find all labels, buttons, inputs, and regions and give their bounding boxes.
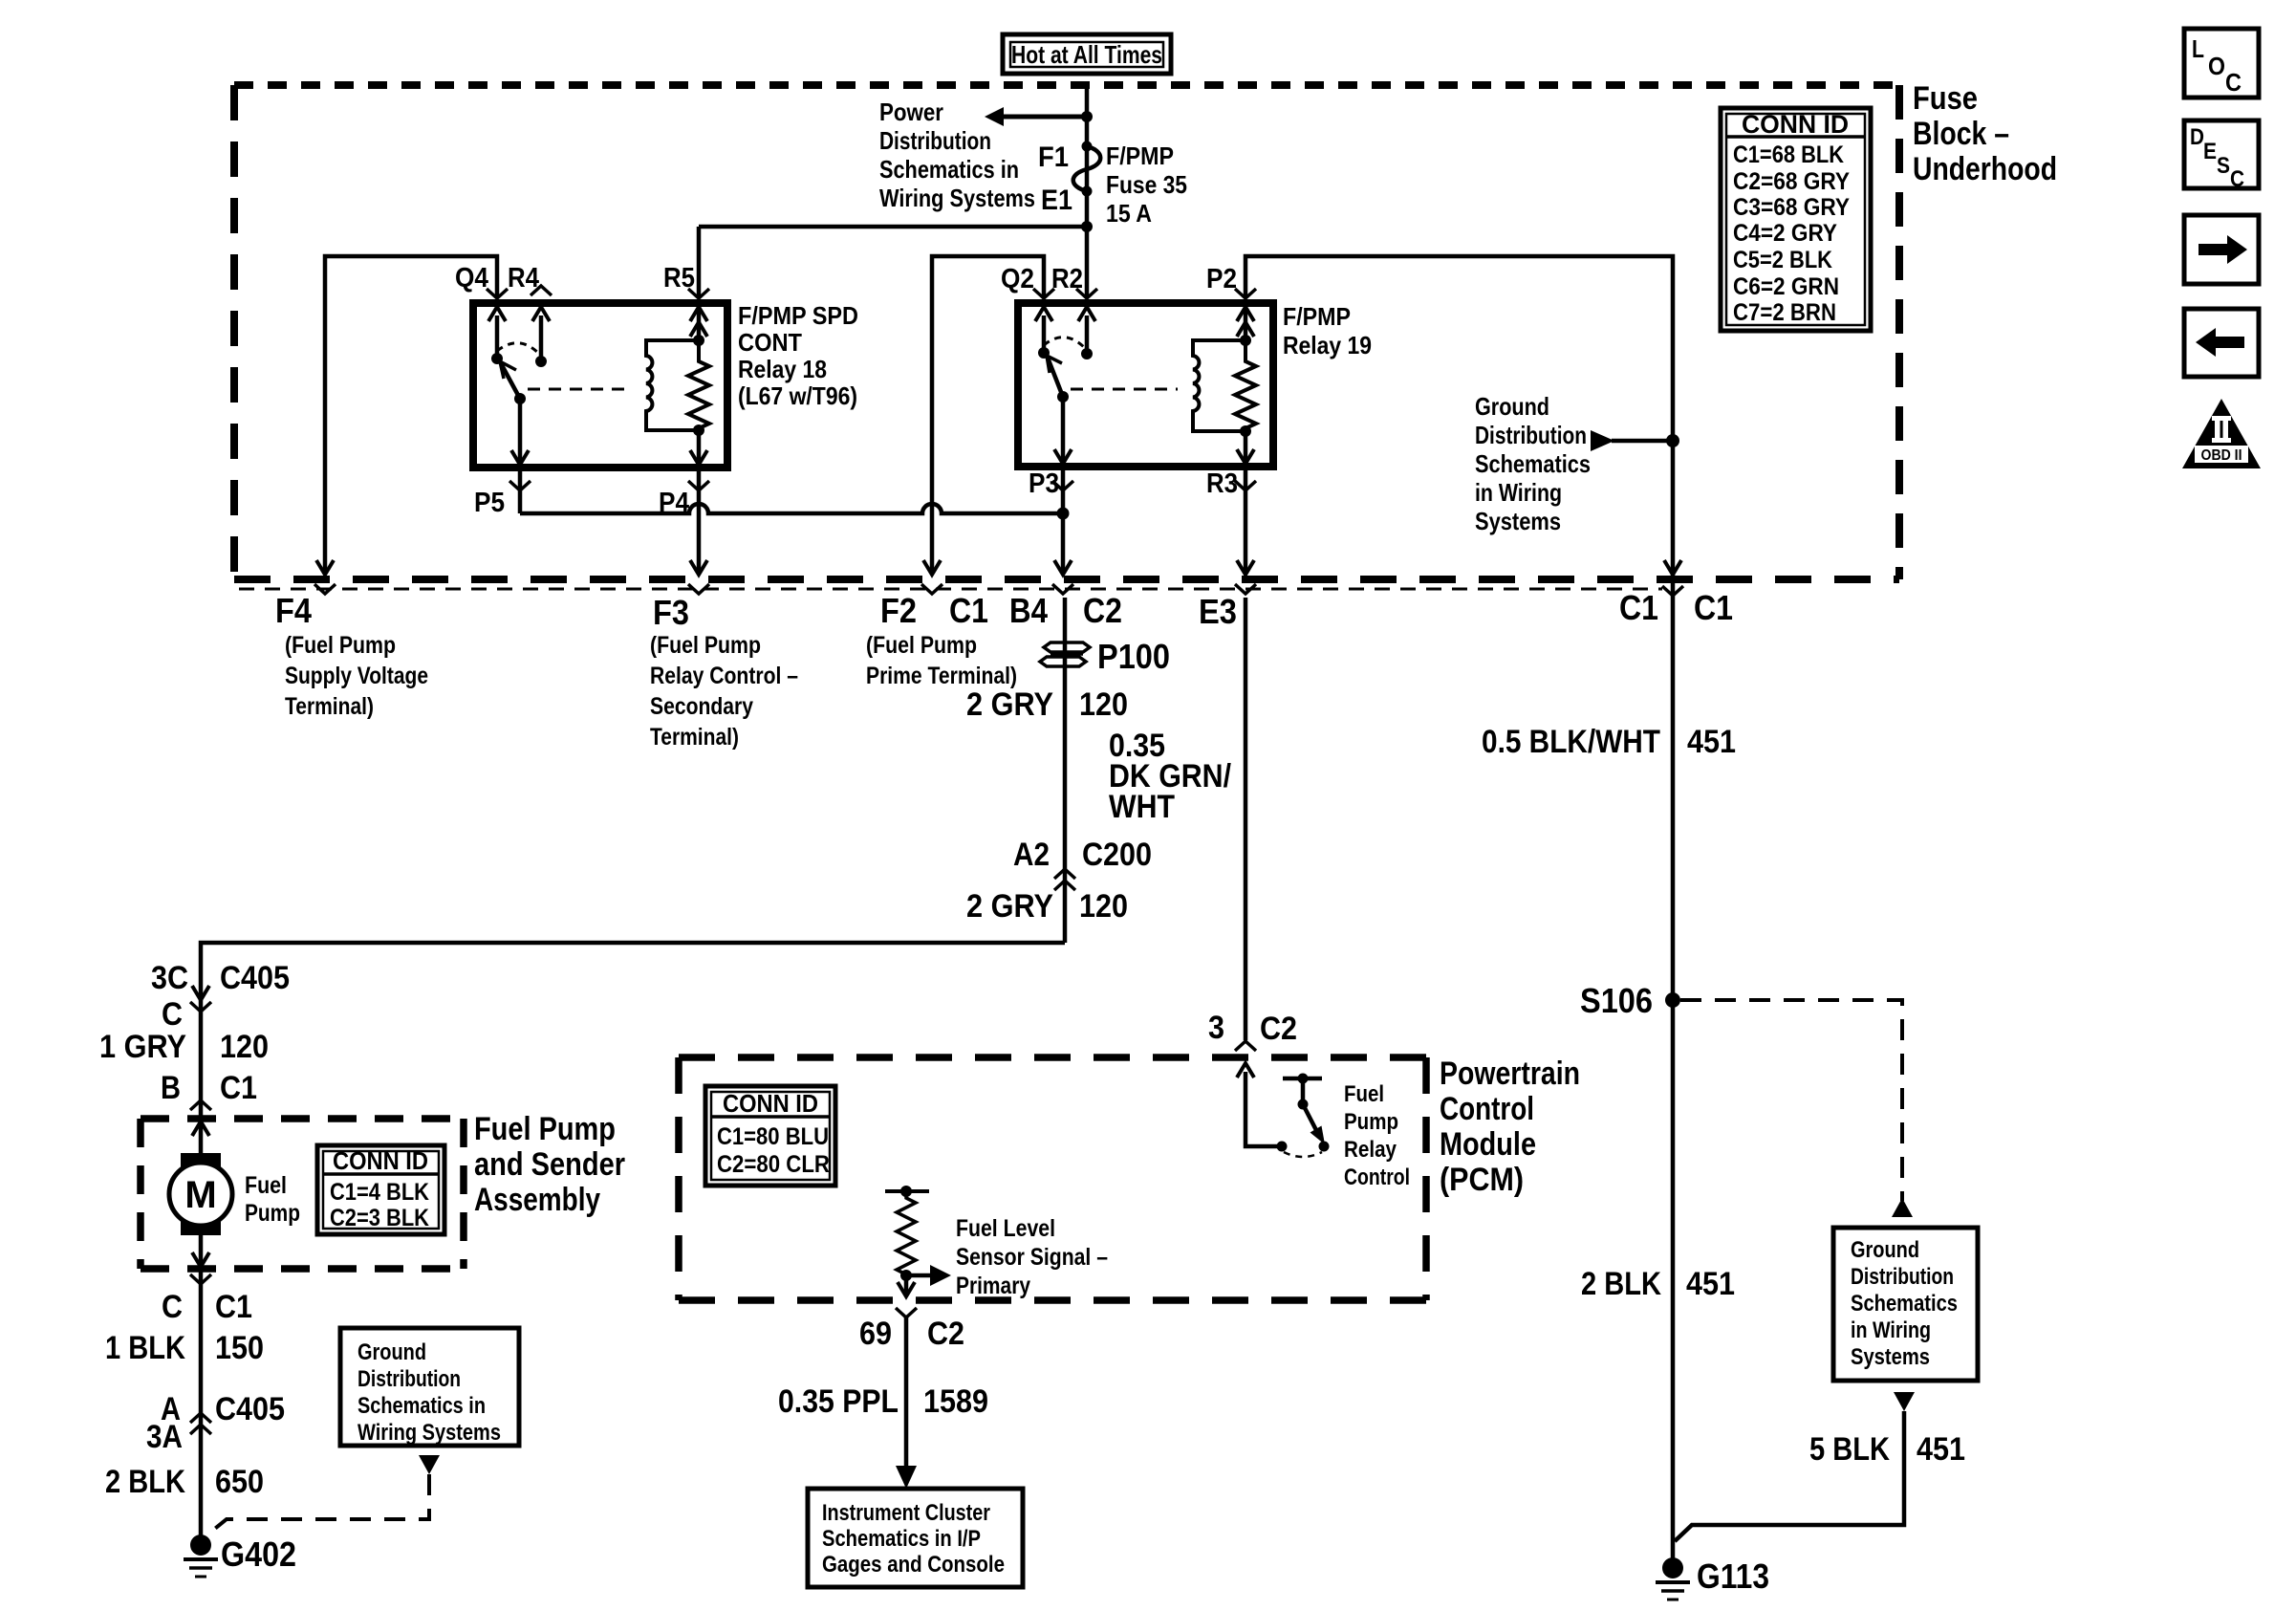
svg-text:Ground: Ground	[357, 1339, 426, 1365]
svg-text:B4: B4	[1009, 591, 1048, 630]
svg-text:Terminal): Terminal)	[650, 724, 739, 751]
wire: pointer arrow into 451 wire	[1591, 430, 1679, 451]
svg-text:F1: F1	[1038, 142, 1069, 173]
svg-text:C7=2 BRN: C7=2 BRN	[1733, 299, 1836, 326]
svg-text:Relay 19: Relay 19	[1283, 331, 1372, 359]
svg-text:E1: E1	[1041, 185, 1072, 216]
svg-text:Module: Module	[1440, 1126, 1536, 1163]
pin P4	[659, 481, 709, 518]
icon: back arrow	[2184, 309, 2259, 377]
svg-text:5 BLK: 5 BLK	[1809, 1431, 1890, 1468]
svg-text:Control: Control	[1440, 1091, 1534, 1127]
wire: 5 BLK 451 from ground note to G113	[1675, 1392, 1915, 1541]
pin R2	[1051, 264, 1097, 298]
svg-text:Distribution: Distribution	[879, 126, 991, 155]
svg-text:2 GRY: 2 GRY	[966, 686, 1053, 723]
svg-text:Wiring Systems: Wiring Systems	[357, 1420, 501, 1446]
svg-text:CONT: CONT	[738, 328, 802, 357]
conn id table: fuse block underhood	[1721, 108, 1871, 331]
svg-text:E: E	[2203, 139, 2217, 164]
svg-text:(L67 w/T96): (L67 w/T96)	[738, 381, 857, 410]
svg-text:Wiring Systems: Wiring Systems	[879, 184, 1035, 212]
wire: across to fuel pump column	[201, 943, 1065, 1545]
relay 18 coil-switch link (dashed)	[528, 388, 631, 391]
svg-text:Power: Power	[879, 98, 943, 126]
note: Ground Distribution Schematics in Wiring Systems (arrow to 451 wire)	[1475, 392, 1591, 535]
svg-text:C2: C2	[1260, 1011, 1297, 1047]
wire: B4/C2 to P100 to C200 to fuel pump	[1063, 598, 1068, 943]
svg-text:Secondary: Secondary	[650, 693, 753, 720]
wire: arrow to Power Distribution Schematics	[985, 107, 1087, 126]
svg-text:650: 650	[215, 1464, 264, 1500]
pin B4 / C2	[1009, 560, 1122, 630]
svg-text:Systems: Systems	[1475, 507, 1561, 535]
svg-text:R3: R3	[1206, 468, 1238, 499]
svg-text:Sensor Signal –: Sensor Signal –	[956, 1244, 1108, 1271]
label: Fuel Pump and Sender Assembly	[474, 1111, 625, 1218]
pin P2	[1206, 264, 1256, 298]
svg-text:451: 451	[1686, 1266, 1735, 1302]
svg-text:Fuel Pump: Fuel Pump	[474, 1111, 616, 1147]
wire: P5 to secondary bus	[518, 468, 523, 513]
label: 2 BLK 451	[1581, 1266, 1735, 1302]
svg-text:D: D	[2190, 124, 2204, 150]
svg-text:Primary: Primary	[956, 1273, 1030, 1299]
label: Fuel Level Sensor Signal - Primary	[956, 1215, 1108, 1299]
svg-text:G402: G402	[221, 1535, 296, 1574]
relay 18 switch throw arc (dashed)	[497, 343, 539, 354]
svg-text:3: 3	[1208, 1010, 1224, 1046]
svg-text:P100: P100	[1097, 637, 1170, 676]
relay 19 coil	[1193, 335, 1251, 437]
label: 1 BLK 150	[105, 1330, 264, 1366]
svg-text:Supply Voltage: Supply Voltage	[285, 663, 428, 689]
icon: DESC	[2184, 120, 2259, 192]
svg-text:Q2: Q2	[1001, 264, 1034, 294]
svg-text:P2: P2	[1206, 264, 1237, 294]
pin Q4	[455, 263, 508, 298]
ground G113	[1656, 1557, 1769, 1600]
svg-text:Q4: Q4	[455, 263, 488, 294]
label: Fuel Pump (motor)	[245, 1172, 300, 1227]
svg-text:Pump: Pump	[245, 1200, 300, 1227]
conn id table: PCM	[705, 1086, 835, 1186]
svg-text:3C: 3C	[151, 960, 188, 996]
motor M1 fuel pump	[169, 1121, 232, 1235]
svg-text:Relay Control –: Relay Control –	[650, 663, 798, 689]
svg-text:451: 451	[1917, 1431, 1965, 1468]
svg-text:Control: Control	[1344, 1165, 1410, 1190]
svg-text:L: L	[2192, 34, 2204, 63]
connector C1 pin C	[162, 1289, 252, 1325]
wire: Q4 pin feed (relay 18) to F4	[325, 256, 497, 575]
pin C1 / C1 on 451 wire	[1619, 560, 1733, 627]
svg-text:C1=68 BLK: C1=68 BLK	[1733, 142, 1844, 168]
svg-text:C2: C2	[927, 1316, 964, 1352]
relay 18 coil	[646, 335, 704, 436]
svg-text:451: 451	[1687, 724, 1736, 760]
svg-text:Fuse: Fuse	[1913, 80, 1978, 117]
svg-text:P5: P5	[474, 488, 505, 518]
svg-text:2 BLK: 2 BLK	[1581, 1266, 1661, 1302]
svg-text:F3: F3	[653, 593, 689, 632]
svg-text:Gages and Console: Gages and Console	[822, 1552, 1005, 1578]
svg-text:Prime Terminal): Prime Terminal)	[866, 663, 1017, 689]
relay 19 box (F/PMP Relay 19)	[1018, 303, 1273, 467]
svg-text:C1: C1	[215, 1289, 252, 1325]
label: 2 BLK 650	[105, 1464, 264, 1500]
svg-text:0.35 PPL: 0.35 PPL	[778, 1383, 899, 1420]
wire: dashed link from ground note to G402	[206, 1455, 440, 1535]
svg-text:in Wiring: in Wiring	[1475, 478, 1562, 507]
svg-text:C6=2 GRN: C6=2 GRN	[1733, 273, 1839, 300]
svg-text:C: C	[162, 996, 183, 1033]
svg-text:Distribution: Distribution	[357, 1366, 461, 1392]
svg-text:Instrument Cluster: Instrument Cluster	[822, 1500, 990, 1526]
svg-text:(PCM): (PCM)	[1440, 1162, 1524, 1198]
svg-text:1 BLK: 1 BLK	[105, 1330, 185, 1366]
svg-text:3A: 3A	[146, 1419, 183, 1455]
relay 19 switch contacts	[1035, 307, 1095, 359]
svg-text:Terminal): Terminal)	[285, 693, 374, 720]
svg-text:R4: R4	[508, 263, 539, 294]
svg-text:C: C	[2225, 68, 2242, 97]
svg-text:C200: C200	[1082, 837, 1152, 873]
wire: P2 feed to right column	[1245, 256, 1673, 1568]
svg-text:F4: F4	[275, 591, 312, 630]
fuse block label	[1913, 80, 2057, 187]
svg-text:OBD II: OBD II	[2201, 447, 2242, 464]
svg-text:S: S	[2217, 153, 2230, 179]
label: 2 GRY 120 (lower)	[966, 888, 1128, 925]
wire: motor to C1 pin C with arrow	[190, 1252, 211, 1284]
svg-text:CONN ID: CONN ID	[333, 1146, 428, 1175]
pin R3	[1206, 468, 1256, 499]
connector C2 pin 69	[859, 1308, 964, 1352]
svg-text:C1=4 BLK: C1=4 BLK	[330, 1179, 429, 1206]
svg-text:C2=80 CLR: C2=80 CLR	[717, 1151, 830, 1178]
svg-text:Distribution: Distribution	[1851, 1264, 1954, 1290]
pin R4 (not connected)	[508, 263, 552, 295]
svg-text:G113: G113	[1697, 1557, 1769, 1596]
svg-text:Powertrain: Powertrain	[1440, 1056, 1580, 1092]
label: 0.5 BLK/WHT 451	[1482, 724, 1736, 760]
pin Q2	[1001, 264, 1054, 298]
svg-text:15 A: 15 A	[1106, 199, 1152, 228]
svg-text:0.5 BLK/WHT: 0.5 BLK/WHT	[1482, 724, 1660, 760]
label: 0.35 PPL 1589	[778, 1383, 988, 1420]
relay 19 resistor	[1235, 340, 1256, 431]
pin F3 (fuel pump relay control - secondary terminal)	[653, 560, 709, 632]
svg-text:1589: 1589	[923, 1383, 988, 1420]
svg-text:C5=2 BLK: C5=2 BLK	[1733, 247, 1832, 273]
svg-text:C2: C2	[1083, 591, 1122, 630]
wire: P5/P3 bus with hops	[520, 504, 1063, 513]
svg-text:C1: C1	[220, 1070, 257, 1106]
svg-text:F2: F2	[880, 591, 917, 630]
svg-text:Relay: Relay	[1344, 1137, 1397, 1163]
svg-text:C1: C1	[1694, 588, 1733, 627]
wire: battery feed from Hot at All Times down to relay 19 R2	[1085, 87, 1090, 297]
svg-text:C1: C1	[949, 591, 988, 630]
relay 19 switch blade	[1047, 356, 1072, 465]
pin F2 / C1 (fuel pump prime terminal)	[880, 560, 988, 630]
svg-text:120: 120	[1079, 888, 1128, 925]
svg-text:Fuel: Fuel	[245, 1172, 287, 1199]
svg-text:2 GRY: 2 GRY	[966, 888, 1053, 925]
svg-text:150: 150	[215, 1330, 264, 1366]
svg-text:C2=3 BLK: C2=3 BLK	[330, 1205, 429, 1231]
pin R5	[663, 263, 709, 298]
connector C200 pin A2	[1013, 837, 1152, 890]
note: (Fuel Pump Prime Terminal)	[866, 632, 1017, 689]
svg-text:O: O	[2208, 52, 2225, 80]
fuel pump and sender assembly dashed box	[141, 1119, 464, 1269]
label: Fuel Pump Relay Control	[1344, 1081, 1410, 1190]
conn id table: fuel pump assembly	[317, 1145, 444, 1234]
svg-text:Fuse 35: Fuse 35	[1106, 170, 1187, 199]
label: Powertrain Control Module (PCM)	[1440, 1056, 1580, 1198]
svg-text:CONN ID: CONN ID	[1742, 110, 1849, 139]
wire: relay 18 P4 internal	[690, 430, 707, 466]
label: 5 BLK 451	[1809, 1431, 1965, 1468]
svg-text:M: M	[184, 1174, 216, 1216]
svg-text:C1: C1	[1619, 588, 1658, 627]
svg-text:Schematics in: Schematics in	[357, 1393, 486, 1419]
svg-text:A2: A2	[1013, 837, 1050, 873]
svg-text:120: 120	[1079, 686, 1128, 723]
svg-text:B: B	[161, 1070, 181, 1106]
connector C2 pin 3 (fuel pump relay control)	[1208, 1010, 1297, 1051]
label: 2 GRY 120 (upper)	[966, 686, 1128, 723]
svg-text:C: C	[162, 1289, 183, 1325]
svg-text:120: 120	[220, 1029, 269, 1065]
pin P3	[1029, 468, 1073, 499]
svg-text:69: 69	[859, 1316, 892, 1352]
svg-text:C1=80 BLU: C1=80 BLU	[717, 1123, 829, 1150]
svg-text:Block –: Block –	[1913, 116, 2009, 152]
svg-text:2 BLK: 2 BLK	[105, 1464, 185, 1500]
svg-text:Fuel: Fuel	[1344, 1081, 1384, 1107]
svg-text:C405: C405	[220, 960, 290, 996]
PCM fuel pump relay control driver switch	[1277, 1074, 1330, 1158]
svg-text:Fuel Level: Fuel Level	[956, 1215, 1055, 1242]
icon: LOC	[2184, 29, 2259, 98]
node: junction bus to B4 wire	[1057, 508, 1070, 520]
relay 18 label	[738, 301, 858, 410]
svg-text:E3: E3	[1199, 592, 1237, 631]
pin E3	[1199, 560, 1256, 631]
svg-text:(Fuel Pump: (Fuel Pump	[285, 632, 396, 659]
svg-text:WHT: WHT	[1109, 789, 1175, 825]
svg-text:C4=2 GRY: C4=2 GRY	[1733, 220, 1837, 247]
svg-text:and Sender: and Sender	[474, 1146, 625, 1183]
note: (Fuel Pump Supply Voltage Terminal)	[285, 632, 428, 720]
connector row thin dashed line (C1 boundary)	[239, 588, 1662, 591]
note box: Ground Distribution Schematics in Wiring Systems (left)	[340, 1328, 519, 1446]
svg-text:Assembly: Assembly	[474, 1182, 600, 1218]
relay 18 box (F/PMP SPD CONT Relay 18)	[473, 303, 727, 468]
pin F4 (fuel pump supply voltage terminal)	[275, 560, 336, 630]
node: Hot at All Times feed box	[1003, 34, 1171, 74]
svg-text:Ground: Ground	[1475, 392, 1549, 421]
wire: relay control into PCM	[1237, 1063, 1282, 1146]
relay 19 switch throw arc (dashed)	[1044, 337, 1085, 348]
wire: Q2 pin feed to F2	[932, 256, 1044, 573]
svg-text:CONN ID: CONN ID	[723, 1089, 818, 1118]
svg-text:Schematics in: Schematics in	[879, 155, 1019, 184]
svg-text:C: C	[2230, 166, 2244, 192]
relay 18 resistor	[688, 340, 709, 430]
svg-text:F/PMP: F/PMP	[1106, 142, 1174, 170]
note box: Instrument Cluster Schematics in I/P Gages and Console	[808, 1489, 1023, 1587]
wire: fuel level signal to instrument cluster	[896, 1317, 917, 1489]
relay 19 coil-switch link (dashed)	[1071, 388, 1178, 391]
pin P5	[474, 481, 531, 518]
wire: relay 19 P2 internal with arrows	[1237, 303, 1254, 340]
svg-text:F/PMP: F/PMP	[1283, 302, 1351, 331]
svg-text:Underhood: Underhood	[1913, 151, 2057, 187]
wire: dashed from S106 to ground note (right)	[1680, 1000, 1913, 1217]
svg-text:Schematics: Schematics	[1851, 1291, 1958, 1317]
node: junction to power distribution	[1081, 111, 1093, 122]
svg-text:Pump: Pump	[1344, 1109, 1398, 1135]
wire: P4 down to F3	[697, 468, 702, 573]
relay 19 label	[1283, 302, 1372, 359]
fuse F35 (F/PMP Fuse 35 15 A)	[1073, 142, 1101, 197]
svg-text:F/PMP SPD: F/PMP SPD	[738, 301, 858, 330]
label: 0.35 DK GRN/WHT	[1109, 728, 1231, 825]
label: F/PMP Fuse 35 15 A	[1106, 142, 1187, 228]
svg-text:Relay 18: Relay 18	[738, 355, 827, 383]
wire: P3 down through bus junction to B4	[1061, 467, 1066, 573]
svg-text:C2=68 GRY: C2=68 GRY	[1733, 168, 1850, 195]
icon: OBD II triangle	[2182, 399, 2261, 468]
splice S106	[1580, 981, 1680, 1020]
powertrain control module dashed box	[679, 1057, 1426, 1300]
svg-text:Ground: Ground	[1851, 1237, 1919, 1263]
svg-text:(Fuel Pump: (Fuel Pump	[650, 632, 761, 659]
svg-text:S106: S106	[1580, 981, 1653, 1020]
svg-text:Hot at All Times: Hot at All Times	[1011, 40, 1162, 69]
note: Power Distribution Schematics in Wiring Systems	[879, 98, 1035, 212]
svg-text:Schematics: Schematics	[1475, 449, 1591, 478]
relay 18 switch blade	[500, 361, 529, 466]
ground G402	[184, 1535, 296, 1577]
wire: relay 19 R3 internal	[1237, 431, 1254, 465]
fuse block - underhood dashed outline	[234, 85, 1899, 579]
connector P100	[1040, 637, 1170, 676]
wire: R3 down to E3	[1244, 467, 1248, 573]
fuel level sensor (variable resistor)	[885, 1186, 951, 1296]
svg-text:Systems: Systems	[1851, 1344, 1930, 1370]
wire: fuse output bus to relay 18 R5	[699, 225, 1087, 229]
svg-text:(Fuel Pump: (Fuel Pump	[866, 632, 977, 659]
svg-text:in Wiring: in Wiring	[1851, 1317, 1931, 1343]
svg-text:C3=68 GRY: C3=68 GRY	[1733, 194, 1850, 221]
connector C405 pin 3C/C	[151, 960, 290, 1033]
wire: relay 18 R5 internal with arrows	[690, 303, 707, 340]
connector C405 pin A/3A	[146, 1391, 285, 1455]
node: junction fuse output	[1081, 221, 1093, 232]
note box: Ground Distribution Schematics in Wiring Systems (right)	[1833, 1228, 1978, 1381]
note: (Fuel Pump Relay Control - Secondary Terminal)	[650, 632, 798, 751]
label: 1 GRY 120	[99, 1029, 269, 1065]
wire: 465 circuit from E3 to PCM pin 3	[1244, 598, 1248, 1040]
svg-text:1 GRY: 1 GRY	[99, 1029, 186, 1065]
icon: forward arrow	[2184, 215, 2259, 284]
svg-text:Schematics in I/P: Schematics in I/P	[822, 1526, 981, 1552]
connector C1 pin B (fuel pump)	[161, 1070, 257, 1110]
svg-text:C405: C405	[215, 1391, 285, 1427]
svg-text:Distribution: Distribution	[1475, 421, 1587, 449]
relay 18 switch common contact arm	[488, 307, 550, 367]
